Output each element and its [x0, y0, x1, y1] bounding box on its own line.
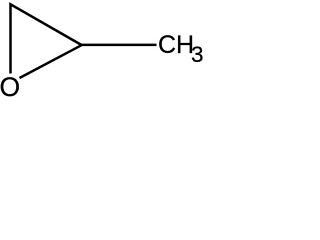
molecule: propylene oxide (methyloxirane)	[0, 0, 205, 100]
bond O1-C2 (ring left vertical) and bond C2-C3 (ring upper diagonal)	[11, 4, 82, 73]
svg-text:3: 3	[191, 42, 204, 67]
svg-text:O: O	[0, 72, 20, 100]
bond C3-C4 (horizontal to methyl)	[82, 44, 157, 47]
bond O1-C3 (ring lower diagonal)	[20, 45, 82, 78]
svg-text:CH: CH	[158, 31, 194, 59]
